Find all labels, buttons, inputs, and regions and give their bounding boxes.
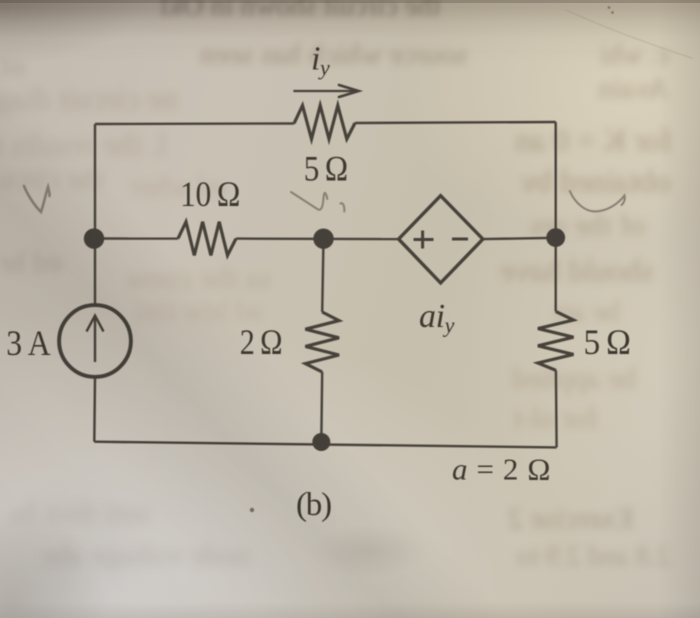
dependent source diamond <box>399 196 483 283</box>
resistor 5ohm top zigzag <box>294 106 355 140</box>
wire middle left horizontal <box>95 237 178 240</box>
svg-text:10 Ω: 10 Ω <box>180 174 240 214</box>
resistor 2ohm zigzag <box>305 312 339 372</box>
current source arrow head <box>87 316 104 332</box>
pencil checkmark <box>24 186 50 212</box>
svg-text:5 Ω: 5 Ω <box>304 149 348 189</box>
pencil squiggle under 5ohm <box>291 192 344 212</box>
pencil faint arc top right <box>566 10 692 58</box>
svg-text:iy: iy <box>311 41 330 81</box>
resistor 10ohm zigzag <box>178 222 236 256</box>
node dot middle <box>313 229 333 249</box>
wire right vertical upper <box>555 122 557 311</box>
plus sign inside diamond <box>414 231 434 249</box>
svg-text:2 Ω: 2 Ω <box>240 322 283 362</box>
wire 2ohm to bottom node <box>320 372 323 442</box>
wire top right horizontal <box>355 122 556 123</box>
wire bottom horizontal <box>94 442 556 448</box>
top dark band <box>0 0 700 62</box>
iy current arrow shaft <box>293 90 355 92</box>
svg-text:(b): (b) <box>296 487 331 523</box>
wire left vertical lower <box>93 378 96 442</box>
node dot right <box>546 228 565 247</box>
svg-text:a = 2 Ω: a = 2 Ω <box>452 452 551 487</box>
node dot left <box>84 228 104 248</box>
resistor 5ohm right zigzag <box>538 311 574 370</box>
iy arrow head <box>339 85 359 97</box>
wire right vertical lower <box>555 370 558 447</box>
pencil dot near (b) <box>250 508 254 512</box>
pencil tick top right <box>608 6 611 9</box>
pencil marks <box>24 6 692 512</box>
svg-text:aiy: aiy <box>419 298 455 338</box>
current source 3A circle <box>59 305 131 377</box>
bleed-through text from reverse side of page <box>160 0 440 23</box>
current source arrow shaft <box>94 317 96 362</box>
pencil squiggle right of corner <box>570 191 625 212</box>
wire middle to diamond <box>236 237 399 240</box>
minus sign inside diamond <box>452 238 468 241</box>
wire top left horizontal <box>95 122 294 125</box>
wire left vertical upper <box>94 124 96 305</box>
svg-text:3 A: 3 A <box>6 323 50 363</box>
wire diamond to right node <box>483 238 556 239</box>
wire middle node down <box>322 239 323 312</box>
svg-text:5 Ω: 5 Ω <box>584 322 631 362</box>
node dot bottom <box>312 433 330 451</box>
